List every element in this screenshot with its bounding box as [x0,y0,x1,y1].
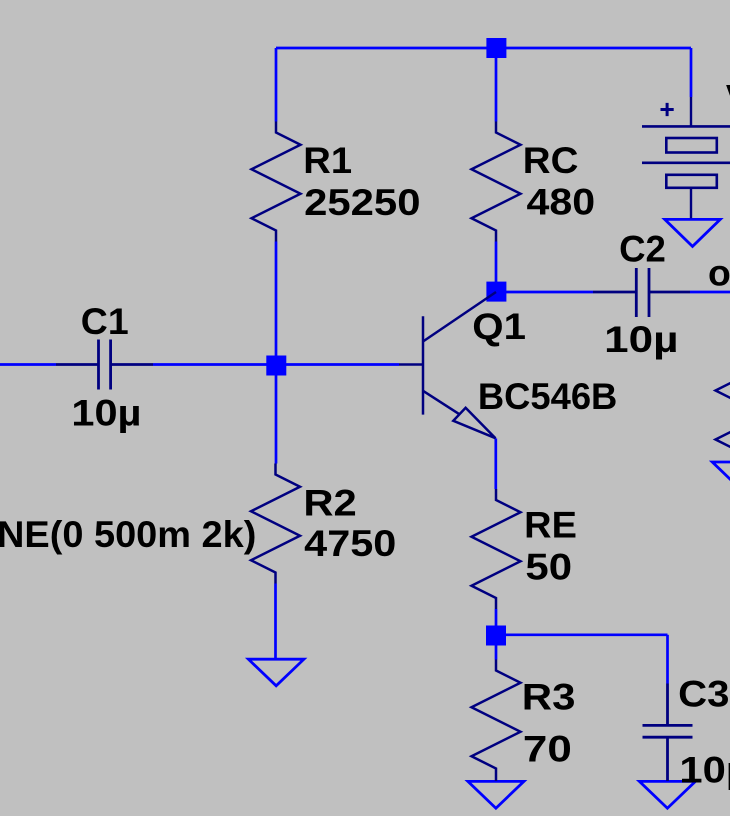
wire base node down to R2 [275,366,278,464]
svg-text:R3: R3 [522,677,576,718]
wire C2 to out (right edge) [690,291,730,294]
ground under battery V1 [665,219,721,246]
svg-text:25250: 25250 [304,182,420,223]
wire C1 to transistor base [153,363,399,366]
svg-text:C2: C2 [619,229,666,270]
wire down to C3 [666,635,669,684]
svg-text:480: 480 [527,182,596,223]
wire collector node to C2 [496,291,593,294]
svg-text:V1: V1 [726,78,730,119]
resistor R3 [472,660,521,782]
ground under R2 [248,659,304,686]
node junction emitter/R3/C3 [486,626,506,646]
wire RC bottom to collector node [495,242,498,293]
wire emitter to RE [494,438,497,489]
svg-text:10µ: 10µ [679,750,730,791]
capacitor C3 [643,684,693,782]
wire top horizontal V+ rail [276,47,691,50]
battery V1 [642,97,730,218]
svg-text:70: 70 [523,729,572,770]
svg-text:10µ: 10µ [604,319,678,360]
ground right edge partial [712,462,730,489]
svg-text:RE: RE [524,505,577,546]
resistor RE [472,489,521,609]
ground under C3 [639,781,695,808]
resistor R2 [251,464,300,584]
svg-text:Q1: Q1 [472,306,526,347]
svg-text:RC: RC [523,140,579,181]
node junction collector/out [486,282,506,302]
wire emitter node to R3 [495,635,498,660]
wire R1 bottom to base node [275,242,278,366]
wire R2 bottom to ground [274,584,277,661]
svg-text:R2: R2 [303,483,356,524]
svg-text:C3: C3 [678,674,729,715]
svg-text:out: out [708,253,730,294]
svg-text:C1: C1 [81,301,129,342]
svg-text:4750: 4750 [304,523,396,564]
node junction top rail [486,38,506,58]
svg-text:50: 50 [525,547,572,588]
wire RE bottom to emitter node [495,609,498,635]
resistor RL partial right edge [716,343,730,462]
svg-text:BC546B: BC546B [478,376,617,417]
transistor Q1 BC546B [399,292,496,438]
wire RC top lead [495,48,498,122]
svg-text:10µ: 10µ [71,393,141,434]
ground under R3 [468,781,524,808]
wire R1 top lead [275,48,278,122]
svg-text:NE(0 500m 2k): NE(0 500m 2k) [0,514,256,555]
wire input from left edge [0,363,56,366]
wire emitter node to C3 horizontal [496,633,668,636]
resistor RC [472,122,521,242]
capacitor C2 [593,268,690,317]
node junction base [266,356,286,376]
wire battery top lead [690,48,693,97]
resistor R1 [252,122,301,242]
capacitor C1 [56,340,153,390]
svg-text:R1: R1 [303,140,352,181]
